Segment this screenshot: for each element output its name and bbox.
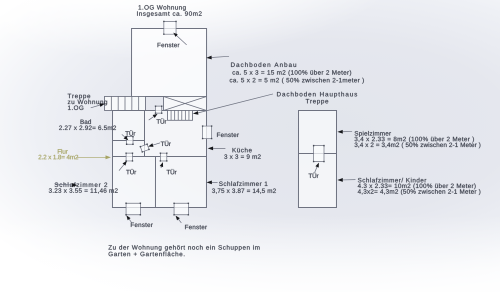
label: Fenster (Kueche window) (217, 133, 239, 137)
label: Schlafzimmer/Kinder block (358, 178, 426, 183)
door: Kueche (tilted) (139, 143, 149, 153)
wall: Bad/Kueche divider (vertical) (143, 110, 145, 156)
door: Bad (127, 137, 133, 145)
label: Bad + area (81, 119, 91, 124)
label: TÜr (Schlafzimmer 2 door) (126, 169, 136, 174)
arrow from Dachboden Anbau to attic wall (212, 56, 229, 57)
window: bottom left (Schlafzimmer 2) (126, 203, 140, 215)
label: Flur + area (olive) (58, 149, 68, 154)
arrow from Schlafzimmer/Kinder label (343, 179, 356, 181)
wall: bedroom divider (vertical) (154, 156, 156, 207)
label: Fenster (bottom window 1) (131, 223, 153, 227)
arrow to Bad door (122, 134, 125, 137)
door in right building (314, 146, 324, 162)
label: TÜr (landing door) (156, 118, 166, 123)
window: Fenster top (attic) (164, 21, 176, 34)
crossed box (stairwell opening) (164, 96, 207, 110)
arrow from Schlafzimmer 2 label (56, 183, 72, 186)
label: Fenster (bottom window 2) (185, 225, 207, 229)
staircase: Dachboden Haupthaus Treppe (hatched) (168, 110, 193, 120)
wall: band top segment over landing (146, 95, 164, 97)
staircase: Treppe zu Wohnung 1.OG (hatched) (105, 96, 146, 110)
arrow to bottom window 2 (178, 219, 181, 223)
wall: hall bottom / bedrooms top (112, 155, 206, 157)
arrow from Spielzimmer label (343, 130, 352, 132)
label: Schlafzimmer 1 + area (219, 181, 267, 186)
arrow to staircase (91, 105, 100, 108)
wall: Haupthaus stair building outline (298, 111, 336, 208)
label: Spielzimmer block (355, 131, 391, 137)
window: Kueche right wall (203, 126, 212, 139)
wall: right edge continues to attic (206, 96, 208, 110)
label: TÜr (right building door) (309, 173, 319, 178)
label: Dachboden Anbau block (231, 62, 296, 67)
arrow to right building door (315, 167, 317, 173)
arrow to Kueche door (153, 143, 160, 145)
arrow to Schlafzimmer 1 wall (212, 181, 218, 183)
arrow to bottom window 1 (129, 219, 131, 222)
arrow to Haupthaus staircase (198, 94, 273, 113)
label: 1.OG Wohnung (139, 5, 186, 11)
label: TÜr (Kueche door) (161, 141, 171, 146)
label: Insgesamt ca. 90m2 (137, 11, 202, 17)
door: Schlafzimmer 2 (126, 153, 132, 161)
note: Schuppen text (108, 245, 259, 251)
label: Kueche + area (233, 148, 252, 153)
window: bottom right (Schlafzimmer 1) (174, 203, 188, 215)
wall: apartment outline (112, 110, 206, 207)
arrow to landing door (149, 117, 154, 121)
wall: Bad bottom (113, 139, 145, 141)
label: Fenster (attic window) (158, 43, 180, 47)
arrow to Schlafzimmer 1 door (160, 167, 162, 168)
arrow from Flur label (olive) (77, 156, 106, 158)
door: Schlafzimmer 1 (160, 153, 166, 161)
arrow to Schlafzimmer 2 door (119, 165, 124, 171)
leader arrow to attic window (177, 36, 187, 45)
arrow to Kueche wall (213, 147, 225, 149)
door at stair landing (156, 106, 162, 113)
label: Dachboden Haupthaus Treppe (277, 92, 357, 98)
wall: divider in right building (298, 153, 336, 155)
label: Treppe zu Wohnung 1.OG (68, 94, 91, 100)
label: Schlafzimmer 2 + area (55, 182, 108, 187)
label: TÜr (Bad door) (125, 130, 135, 135)
wall: attic (Dachboden Anbau) building outline (132, 28, 207, 96)
label: TÜr (Schlafzimmer 1 door) (167, 169, 177, 174)
